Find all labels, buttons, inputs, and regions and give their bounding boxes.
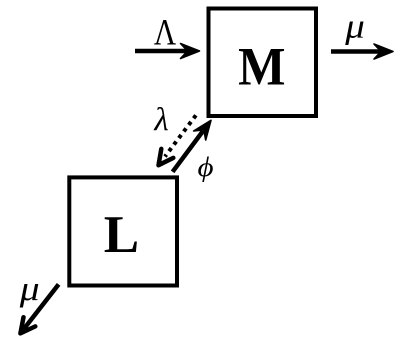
svg-text:ϕ: ϕ	[197, 153, 213, 183]
svg-text:μ: μ	[19, 270, 40, 308]
svg-text:M: M	[238, 38, 285, 97]
box L	[69, 177, 177, 285]
svg-text:μ: μ	[344, 7, 365, 45]
arrow mu out of L (wire)	[20, 284, 58, 333]
svg-text:λ: λ	[153, 102, 168, 138]
svg-text:L: L	[104, 206, 139, 264]
arrow mu out of M (wire)	[331, 44, 393, 59]
arrow lambda dotted from M to L (wire)	[159, 115, 196, 165]
svg-text:Λ: Λ	[154, 13, 177, 53]
arrow Lambda into M (wire)	[135, 44, 200, 59]
arrow phi from L to M (wire)	[173, 120, 211, 172]
box M	[209, 9, 317, 117]
